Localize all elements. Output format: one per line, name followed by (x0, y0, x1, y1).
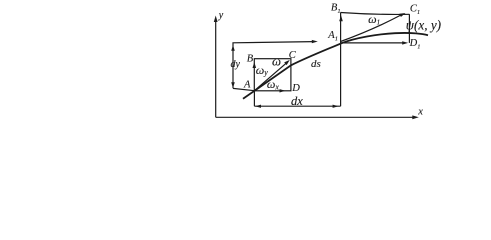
arrow dy top (up) (231, 45, 235, 51)
right edge C1 D1 (408, 14, 410, 43)
dy dimension line with top leader arrow toward A1 (233, 42, 314, 89)
svg-text:ds: ds (311, 58, 321, 70)
deflection curve psi (243, 33, 428, 99)
omega1 vector A1 to C1 (341, 15, 402, 42)
svg-text:A1: A1 (327, 30, 338, 43)
dx dimension line (254, 105, 340, 107)
arrow up below B1 (339, 15, 343, 21)
dy bottom extension to A (233, 88, 254, 90)
svg-text:C: C (289, 50, 297, 61)
svg-text:B: B (247, 54, 254, 65)
extension A down to dx line (253, 91, 255, 106)
arrow omega_x (right, on bottom edge) (280, 89, 286, 92)
arrow leader right (312, 40, 318, 43)
svg-text:ω: ω (272, 54, 281, 68)
arrow omega at C (284, 60, 290, 65)
arrow dx left (255, 105, 261, 108)
A1 D1 horizontal arrow line (341, 42, 404, 44)
svg-text:D1: D1 (409, 38, 421, 51)
svg-text:dy: dy (231, 59, 241, 70)
y axis (215, 19, 217, 117)
arrow A1 D1 right (402, 41, 408, 44)
svg-text:B1: B1 (331, 2, 341, 15)
arrow x axis (412, 115, 419, 119)
arrow dy bottom (down) (231, 82, 235, 88)
x axis (216, 116, 414, 118)
arrow y axis (214, 16, 218, 23)
svg-text:D: D (291, 83, 300, 94)
omega vector A to C (254, 63, 286, 91)
svg-text:y: y (218, 10, 224, 21)
svg-text:x: x (417, 106, 423, 117)
svg-text:dx: dx (291, 94, 303, 108)
arrow dx right (333, 105, 339, 108)
top edge B1 C1 (341, 13, 410, 15)
svg-text:ωy: ωy (256, 63, 268, 77)
arrow omega1 at C1 (399, 13, 405, 17)
arrow omega_y (up, on left edge) (253, 62, 257, 68)
svg-text:ψ(x, y): ψ(x, y) (406, 17, 441, 32)
svg-text:C1: C1 (410, 3, 420, 16)
svg-text:A: A (243, 79, 251, 90)
element rectangle ABCD (254, 59, 291, 91)
svg-text:ωx: ωx (267, 77, 279, 91)
vertical B1-A1 and extension to dx line (340, 12, 342, 106)
